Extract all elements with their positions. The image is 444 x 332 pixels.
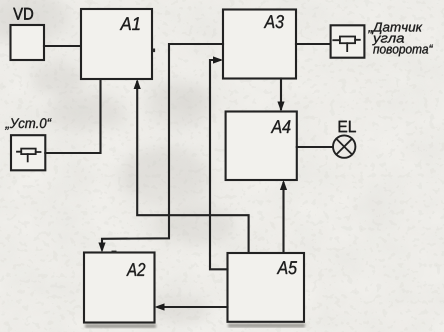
- label sensor line3: [373, 45, 433, 57]
- block A5: [228, 253, 305, 322]
- label A4: [271, 120, 291, 133]
- label Ust.0: [5, 118, 52, 130]
- scan artifact: tick on A2 top edge: [112, 251, 117, 254]
- block A4: [226, 112, 297, 181]
- block A1: [81, 9, 152, 79]
- block A2: [84, 253, 155, 323]
- wire A5 up to A4 (arrowed): [282, 183, 284, 253]
- wire A3 to sensor: [296, 43, 331, 45]
- sensor symbol: [333, 37, 360, 52]
- wire A3 to A2 top (arrowed): [102, 44, 223, 250]
- arrow up into A4 bottom: [280, 180, 287, 190]
- photocopy shadow under block A2: [85, 324, 156, 328]
- label EL: [339, 121, 356, 132]
- block VD: [11, 25, 45, 60]
- label A1: [120, 17, 140, 30]
- arrow right into A3 left: [213, 56, 223, 63]
- label sensor line2: [372, 36, 404, 46]
- block Ust.0: [11, 135, 45, 170]
- photocopy shadow under block A5: [228, 324, 305, 328]
- lamp EL symbol: [333, 135, 355, 157]
- wire A5 to A3 (arrowed): [210, 60, 228, 269]
- sensor block: [331, 25, 365, 57]
- label VD: [13, 8, 33, 20]
- label A3: [264, 15, 284, 28]
- wire A4 to lamp EL: [297, 146, 333, 148]
- wire A3 down to A4 (arrowed): [280, 79, 282, 110]
- arrow left into A2 right: [155, 303, 165, 310]
- label A5: [277, 261, 297, 274]
- wire VD to A1: [44, 45, 81, 47]
- arrowheads: [98, 56, 287, 310]
- wire Ust.0 to A1 bottom: [45, 79, 100, 153]
- arrow up into A1 bottom: [134, 79, 141, 89]
- wire A5 to A1 (arrowed): [137, 82, 248, 253]
- Ust.0 symbol: [17, 149, 41, 162]
- arrow down into A4 top: [277, 102, 284, 112]
- wire A5 to A2 right (arrowed): [158, 306, 228, 308]
- label sensor line1: [368, 23, 422, 34]
- arrow down into A2 top: [98, 243, 105, 253]
- block A3: [223, 10, 296, 79]
- label A2: [126, 263, 145, 276]
- scan artifact: stub on A1 right edge: [153, 49, 156, 53]
